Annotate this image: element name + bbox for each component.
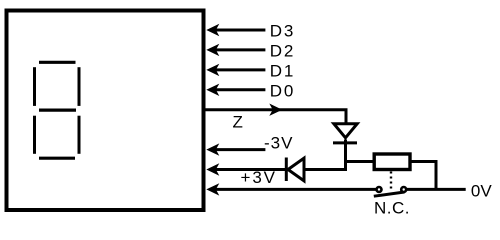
mechanical link (dotted) (390, 172, 392, 191)
segment d (39, 157, 75, 160)
wire -3V (213, 148, 265, 151)
arrowhead Z (pointing right) (269, 104, 282, 116)
svg-text:D0: D0 (270, 81, 294, 100)
svg-text:+3V: +3V (241, 168, 276, 187)
segment b (78, 67, 81, 106)
arrowhead D1 (206, 64, 219, 76)
switch contact right (401, 187, 406, 192)
segment e (33, 116, 36, 154)
wire node to relay coil (346, 160, 373, 163)
display module box U1 (7, 11, 204, 211)
arrowhead D0 (206, 84, 219, 96)
svg-text:D3: D3 (270, 22, 294, 41)
wire D1 (213, 68, 265, 71)
wire D3 (213, 29, 265, 32)
svg-text:-3V: -3V (264, 133, 293, 152)
svg-text:D1: D1 (270, 61, 294, 80)
arrowhead D3 (206, 24, 219, 36)
wire D2 (213, 48, 265, 51)
wire +3V diode to node (304, 168, 347, 171)
switch contact left (377, 187, 382, 192)
arrowhead D2 (206, 44, 219, 56)
segment c (78, 116, 81, 154)
arrowhead 0V (206, 183, 219, 195)
segment f (33, 67, 36, 106)
segment a (39, 61, 76, 64)
wire +3V (213, 168, 285, 171)
Z diode cathode bar (333, 141, 357, 144)
wire 0V right (406, 188, 465, 191)
+3V diode cathode bar (285, 158, 288, 182)
wire D0 (213, 88, 265, 91)
svg-text:0V: 0V (471, 182, 492, 201)
wire coil to 0V rail (410, 162, 436, 190)
wire 0V left (213, 188, 376, 191)
switch blade S1 (374, 192, 405, 196)
wire diode to node (344, 140, 347, 172)
arrowhead -3V (206, 143, 219, 155)
diode on +3V line (cathode left) (288, 158, 304, 181)
relay coil K1 (374, 154, 410, 170)
arrowhead +3V (206, 163, 219, 175)
svg-text:N.C.: N.C. (374, 199, 410, 218)
diode on Z line (cathode down) (334, 124, 357, 138)
segment g (39, 108, 76, 111)
wire Z (205, 110, 346, 124)
svg-text:Z: Z (233, 113, 243, 132)
svg-text:D2: D2 (270, 41, 294, 60)
